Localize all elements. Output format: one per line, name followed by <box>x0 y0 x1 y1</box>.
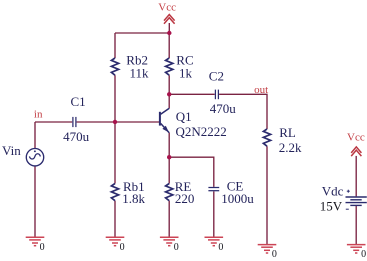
battery Vdc plate short <box>350 199 361 201</box>
svg-text:Q1: Q1 <box>176 109 192 124</box>
source Vin circle <box>26 149 43 166</box>
ground 0 for RE <box>160 237 179 245</box>
capacitor C2 <box>215 90 218 100</box>
resistor RL <box>263 129 270 146</box>
resistor Rb1 <box>111 184 118 201</box>
wire input left to C1 <box>35 121 72 123</box>
svg-text:out: out <box>254 84 268 96</box>
svg-text:220: 220 <box>175 191 195 206</box>
svg-text:1.8k: 1.8k <box>122 191 145 206</box>
junction dot collector node <box>167 92 171 96</box>
battery Vdc plate long top <box>346 196 367 198</box>
transistor Q1 emitter arrow <box>162 126 169 133</box>
svg-text:RL: RL <box>279 125 296 140</box>
svg-text:1000u: 1000u <box>221 191 254 206</box>
battery Vdc plate short bottom <box>350 204 361 206</box>
svg-text:Vcc: Vcc <box>158 1 176 13</box>
svg-text:470u: 470u <box>210 101 237 116</box>
svg-text:C2: C2 <box>209 68 224 83</box>
wire Rb2 top <box>114 33 116 58</box>
svg-text:11k: 11k <box>130 65 150 80</box>
svg-text:0: 0 <box>218 242 223 253</box>
ground 0 for Rb1 <box>106 237 125 245</box>
power symbol Vcc top chevron <box>164 15 175 24</box>
battery Vdc plus sign <box>347 190 350 193</box>
svg-text:Vcc: Vcc <box>347 131 365 143</box>
svg-text:Q2N2222: Q2N2222 <box>176 124 227 139</box>
wire RC top <box>168 33 170 58</box>
capacitor CE <box>208 188 219 191</box>
junction dot base node <box>113 120 117 124</box>
transistor Q1 emitter lead <box>161 123 170 132</box>
svg-text:0: 0 <box>120 242 125 253</box>
wire Vin bottom to ground <box>34 166 36 237</box>
wire CE bottom to ground <box>213 191 215 237</box>
svg-text:in: in <box>34 109 43 121</box>
wire RE bottom to ground <box>168 201 170 238</box>
resistor Rb2 <box>111 58 118 75</box>
wire emitter <box>168 133 170 158</box>
wire Vin top <box>34 122 36 149</box>
wire C1 to base node <box>77 121 160 123</box>
transistor Q1 base bar <box>159 112 161 126</box>
wire collector <box>168 94 170 108</box>
wire Vcc to Vdc battery <box>355 156 357 197</box>
ground 0 for Vin <box>26 237 45 245</box>
wire C2 to out corner <box>219 94 267 129</box>
svg-text:15V: 15V <box>320 199 343 214</box>
ground 0 for CE <box>205 237 224 245</box>
svg-text:0: 0 <box>174 242 179 253</box>
battery Vdc minus sign <box>346 208 349 210</box>
wire Rb1 bottom to ground <box>114 201 116 238</box>
svg-text:1k: 1k <box>179 65 193 80</box>
junction dot emitter node <box>167 155 171 159</box>
svg-text:470u: 470u <box>63 129 90 144</box>
wire collector node to C2 <box>169 93 215 95</box>
ground 0 for Vdc <box>347 245 366 253</box>
resistor RE <box>166 184 173 201</box>
wire emitter node to CE <box>169 157 214 187</box>
wire RC bottom to collector node <box>168 75 170 94</box>
source Vin sine wave <box>29 154 40 159</box>
wire top rail Vcc <box>115 32 169 34</box>
capacitor C1 <box>73 117 76 127</box>
resistor RC <box>166 58 173 75</box>
wire Rb2 bottom to Rb1 top <box>114 75 116 183</box>
wire Vdc battery to ground <box>355 206 357 245</box>
source Vin plus terminal dot <box>34 150 36 152</box>
wire RL bottom to ground <box>266 146 268 244</box>
ground 0 for RL <box>258 245 277 253</box>
svg-text:0: 0 <box>361 249 366 260</box>
power symbol Vcc right chevron <box>351 147 361 156</box>
junction dot Vcc rail node <box>167 31 171 35</box>
svg-text:0: 0 <box>272 249 277 260</box>
wire emitter node to RE <box>168 157 170 183</box>
svg-text:2.2k: 2.2k <box>279 140 302 155</box>
svg-text:Vdc: Vdc <box>322 184 344 199</box>
svg-text:Vin: Vin <box>2 143 21 158</box>
wire Vcc stub <box>168 23 170 33</box>
transistor Q1 collector lead <box>161 108 170 114</box>
battery Vdc plate long bottom <box>346 202 367 204</box>
svg-text:C1: C1 <box>71 94 86 109</box>
svg-text:0: 0 <box>40 242 45 253</box>
